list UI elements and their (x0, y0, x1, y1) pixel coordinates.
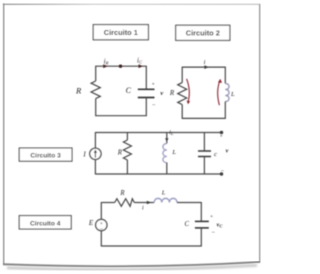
wire: circuit2 right upper (224, 67, 226, 84)
svg-text:v: v (160, 90, 163, 97)
svg-text:L: L (171, 149, 176, 156)
wire: circuit3 source lower (94, 160, 96, 175)
svg-text:Circuito 3: Circuito 3 (30, 153, 61, 160)
svg-text:iL: iL (169, 130, 174, 136)
svg-text:v: v (226, 148, 229, 155)
svg-text:R: R (119, 190, 125, 197)
svg-text:E: E (88, 219, 94, 227)
red circulation arrow right (up) (218, 79, 222, 105)
wire: circuit2 left lower (181, 105, 183, 119)
wire: circuit3 L lower (166, 163, 168, 175)
node junction dot (119, 65, 122, 68)
wire: circuit2 left upper (181, 67, 183, 83)
wire: circuit2 bottom (182, 117, 225, 119)
wire: circuit3 top (95, 132, 221, 134)
arrowhead current i circuit4 (147, 201, 151, 205)
voltage source E circuit4 (96, 219, 107, 232)
page border bottom (3, 262, 260, 266)
wire: circuit1 top (96, 65, 147, 67)
inductor L circuit4 (154, 198, 177, 202)
arrowhead current iL (165, 138, 168, 141)
wire: circuit1 left lower (95, 99, 97, 117)
svg-text:Circuito 2: Circuito 2 (186, 29, 220, 38)
wire: circuit3 C lower (203, 157, 205, 175)
wire: circuit4 right lower (200, 228, 202, 247)
svg-text:C: C (126, 86, 132, 95)
inductor L circuit3 (163, 144, 167, 163)
svg-text:R: R (169, 89, 175, 97)
page border left (3, 4, 4, 265)
wire: circuit4 mid segment with current arrow (134, 202, 154, 204)
svg-text:C: C (185, 221, 190, 228)
wire: circuit2 top (182, 66, 225, 68)
wire: circuit3 L upper (166, 133, 168, 144)
capacitor C circuit4 plates (195, 220, 209, 222)
svg-text:R: R (117, 150, 123, 157)
resistor R circuit4 (115, 199, 135, 207)
wire: circuit4 right upper (200, 202, 202, 221)
svg-text:+: + (152, 82, 155, 88)
wire: circuit4 left lower (100, 231, 102, 247)
wire: circuit1 right lower (145, 98, 147, 117)
arrowhead current i circuit2 (204, 65, 208, 69)
capacitor C circuit3 plates (198, 150, 211, 152)
red circulation arrow left (down) (187, 79, 191, 104)
svg-text:c: c (214, 151, 217, 158)
wire: circuit4 bottom (101, 245, 201, 247)
current source I circuit3 (90, 148, 101, 159)
wire: circuit4 left upper (100, 202, 102, 219)
wire: circuit3 R lower (126, 160, 128, 174)
title box Circuito 1 (93, 25, 148, 40)
page border top (3, 4, 260, 5)
svg-text:L: L (230, 91, 235, 98)
wire: circuit1 left upper (95, 66, 97, 81)
wire: circuit1 right upper (145, 66, 147, 90)
node terminal top right (220, 131, 223, 134)
resistor R circuit1 (91, 81, 100, 99)
arrowhead current iR (103, 64, 107, 68)
inductor L circuit2 (225, 84, 229, 102)
wire: circuit3 bottom (95, 173, 221, 175)
svg-text:L: L (161, 190, 166, 197)
page border right (259, 4, 260, 263)
wire: circuit3 R upper (126, 133, 128, 141)
node terminal bottom right (220, 172, 223, 175)
resistor R circuit2 (178, 83, 187, 105)
svg-text:i: i (204, 59, 206, 66)
svg-text:+: + (210, 214, 213, 220)
wire: circuit1 bottom (96, 115, 147, 117)
capacitor C circuit1 plates (138, 88, 155, 90)
svg-text:R: R (75, 86, 82, 96)
svg-text:Circuito 1: Circuito 1 (104, 28, 138, 37)
wire: circuit2 right lower (224, 102, 226, 119)
title box Circuito 4 (19, 216, 71, 229)
arrowhead current iC (139, 64, 143, 68)
wire: circuit3 C upper (203, 133, 205, 152)
svg-text:Circuito 4: Circuito 4 (30, 220, 61, 227)
title box Circuito 2 (176, 25, 230, 40)
svg-text:+: + (220, 134, 223, 140)
wire: circuit3 source upper (94, 132, 96, 148)
title box Circuito 3 (19, 148, 72, 161)
svg-text:vC: vC (217, 223, 224, 229)
wire: circuit4 top left segment (101, 202, 114, 204)
page bottom shadow (7, 265, 257, 269)
wire: circuit4 top right segment (177, 202, 201, 204)
resistor R circuit3 (123, 140, 131, 160)
